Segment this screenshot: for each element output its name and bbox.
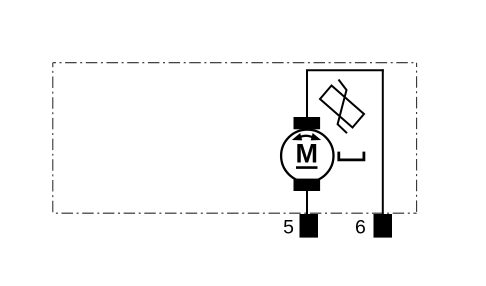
bracket symbol right of motor: [339, 152, 364, 160]
wire right vertical run down to terminal 6: [382, 69, 384, 216]
component boundary right edge (dash-dot): [416, 63, 418, 214]
svg-text:5: 5: [283, 217, 294, 239]
wire from motor top brush up: [306, 70, 308, 131]
arrow head right: [311, 133, 321, 140]
component boundary bottom edge (dash-dot): [53, 212, 417, 214]
terminal 5 (black pin): [300, 214, 319, 238]
component boundary top edge (dash-dot): [53, 62, 417, 64]
bidirectional rotation arrow arc: [299, 136, 313, 138]
motor M1 body (circle): [281, 130, 333, 182]
arrow head left: [292, 133, 302, 140]
motor top brush: [294, 117, 321, 129]
thermal cutout body (tilted rectangle): [320, 86, 364, 128]
terminal 6 (black pin): [374, 214, 393, 238]
thermal cutout actuator line (zigzag through body): [338, 80, 347, 134]
svg-text:6: 6: [355, 217, 366, 239]
wire from motor bottom brush down to terminal 5: [306, 178, 308, 216]
svg-text:M: M: [295, 138, 318, 168]
wire top horizontal run: [306, 69, 384, 71]
component boundary left edge (dash-dot): [52, 63, 54, 214]
motor letter underline: [296, 166, 318, 169]
motor bottom brush: [294, 179, 321, 191]
